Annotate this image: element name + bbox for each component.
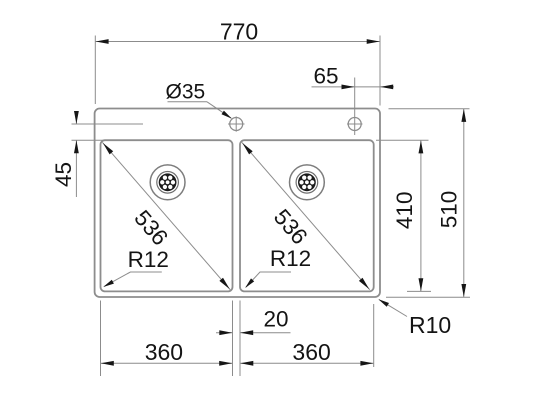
dimension 20 (gap between bowls) <box>216 306 291 335</box>
label Ø35 with leader to faucet hole 1 <box>166 81 232 119</box>
dimension 410 (bowl height, right) <box>376 140 431 291</box>
svg-text:770: 770 <box>220 19 258 45</box>
svg-text:Ø35: Ø35 <box>166 81 206 104</box>
dimension 360 bowl 2 width <box>240 339 374 366</box>
svg-text:45: 45 <box>51 162 76 187</box>
svg-text:510: 510 <box>437 191 462 229</box>
svg-text:R12: R12 <box>270 246 311 271</box>
svg-text:R10: R10 <box>409 312 451 338</box>
label R10 with leader to sink corner <box>378 299 451 338</box>
extension lines below sink for 360/20 dims <box>101 301 374 377</box>
bowl 2 outline 360x410 <box>240 140 374 291</box>
dimension 510 (overall height, right) <box>386 109 470 298</box>
drain strainer 1 <box>150 165 185 200</box>
svg-text:20: 20 <box>263 306 288 331</box>
dimension 360 bowl 1 width <box>101 339 233 366</box>
svg-text:360: 360 <box>145 339 183 365</box>
label R12 bowl 2 with leader <box>245 246 311 288</box>
dimension 65 (hole 2 to right edge) <box>312 63 395 135</box>
label R12 bowl 1 with leader <box>103 247 169 287</box>
svg-text:65: 65 <box>313 63 338 88</box>
dimension 536 diagonal bowl 1 <box>102 142 230 289</box>
svg-text:360: 360 <box>292 339 330 365</box>
dimension 536 diagonal bowl 2 <box>242 142 370 289</box>
svg-text:410: 410 <box>392 192 417 230</box>
dimension 45 (hole centerline to bowl top) <box>51 111 143 197</box>
svg-text:R12: R12 <box>128 247 169 272</box>
faucet hole 2 Ø35 with crosshair <box>347 118 363 131</box>
drain strainer 2 <box>290 165 325 200</box>
sink outer outline 770x510 R10 <box>95 109 380 298</box>
bowl 1 outline 360x410 <box>101 140 233 291</box>
dimension 770 (top overall width) <box>95 19 380 106</box>
faucet hole 1 Ø35 with crosshair <box>228 116 245 131</box>
